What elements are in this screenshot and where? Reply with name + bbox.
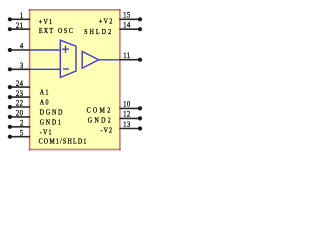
svg-text:5: 5 xyxy=(20,128,24,138)
svg-text:+V2: +V2 xyxy=(99,18,114,26)
pin 5 dot xyxy=(8,135,12,139)
pin 1 wire xyxy=(10,18,30,20)
svg-text:4: 4 xyxy=(20,41,24,51)
buffer U1B triangle xyxy=(82,51,98,68)
pin 10 dot xyxy=(138,106,142,110)
svg-text:SHLD2: SHLD2 xyxy=(84,29,113,37)
pin 20 wire xyxy=(10,116,30,118)
IC body border left xyxy=(29,9,31,150)
svg-text:-V1: -V1 xyxy=(40,129,53,137)
svg-text:+V1: +V1 xyxy=(39,18,54,26)
pin 24 wire xyxy=(10,86,30,88)
svg-text:A0: A0 xyxy=(40,99,50,107)
svg-text:13: 13 xyxy=(123,119,130,129)
pin 13 dot xyxy=(138,126,142,130)
pin 20 dot xyxy=(8,115,12,119)
pin 23 dot xyxy=(8,95,12,99)
wire from buffer output xyxy=(98,59,120,61)
pin 4 dot xyxy=(8,48,12,52)
pin 12 wire xyxy=(119,117,139,119)
svg-text:14: 14 xyxy=(123,20,130,30)
svg-text:11: 11 xyxy=(123,50,130,60)
svg-text:GND1: GND1 xyxy=(40,119,63,127)
pin 2 wire xyxy=(10,126,30,128)
pin 11 dot xyxy=(138,58,142,62)
svg-text:GND2: GND2 xyxy=(88,117,113,125)
pin 3 dot xyxy=(8,67,12,71)
pin 21 dot xyxy=(8,27,12,31)
svg-text:12: 12 xyxy=(123,109,130,119)
svg-text:3: 3 xyxy=(20,60,24,70)
pin 23 wire xyxy=(10,96,30,98)
svg-text:22: 22 xyxy=(16,98,23,108)
op-amp plus mark xyxy=(62,46,69,53)
op-amp minus mark xyxy=(63,68,69,70)
pin 12 dot xyxy=(138,116,142,120)
svg-text:EXT: EXT xyxy=(39,27,54,35)
pin 11 wire xyxy=(119,59,139,61)
svg-text:20: 20 xyxy=(16,108,23,118)
svg-text:1: 1 xyxy=(20,10,24,20)
svg-text:COM2: COM2 xyxy=(87,107,113,115)
pin 24 dot xyxy=(8,85,12,89)
pin 14 dot xyxy=(138,27,142,31)
svg-text:COM1/SHLD1: COM1/SHLD1 xyxy=(39,138,88,146)
pin 1 dot xyxy=(8,17,12,21)
svg-text:21: 21 xyxy=(16,20,23,30)
svg-text:OSC: OSC xyxy=(58,27,74,35)
pin 13 wire xyxy=(119,128,139,130)
pin 15 dot xyxy=(138,17,142,21)
svg-text:24: 24 xyxy=(16,78,23,88)
pin 5 wire xyxy=(10,136,30,138)
op-amp U1A trapezoid xyxy=(60,40,76,77)
pin 3 wire xyxy=(10,68,30,70)
svg-text:A1: A1 xyxy=(40,89,50,97)
pin 14 wire xyxy=(119,28,139,30)
wire to op-amp - input xyxy=(30,68,60,70)
svg-text:10: 10 xyxy=(123,99,130,109)
IC body border bottom xyxy=(29,149,121,151)
svg-text:23: 23 xyxy=(16,88,23,98)
svg-text:-V2: -V2 xyxy=(101,127,113,135)
IC body U1 xyxy=(30,10,120,149)
pin 10 wire xyxy=(119,107,139,109)
pin 4 wire xyxy=(10,49,30,51)
pin 2 dot xyxy=(8,125,12,129)
svg-text:DGND: DGND xyxy=(40,109,65,117)
svg-text:2: 2 xyxy=(20,118,24,128)
IC body border top xyxy=(29,9,121,11)
pin 22 wire xyxy=(10,106,30,108)
svg-text:15: 15 xyxy=(123,10,130,20)
IC body border right xyxy=(119,9,121,150)
pin 15 wire xyxy=(119,18,139,20)
pin 22 dot xyxy=(8,105,12,109)
pin 21 wire xyxy=(10,28,30,30)
wire to op-amp + input xyxy=(30,49,60,51)
